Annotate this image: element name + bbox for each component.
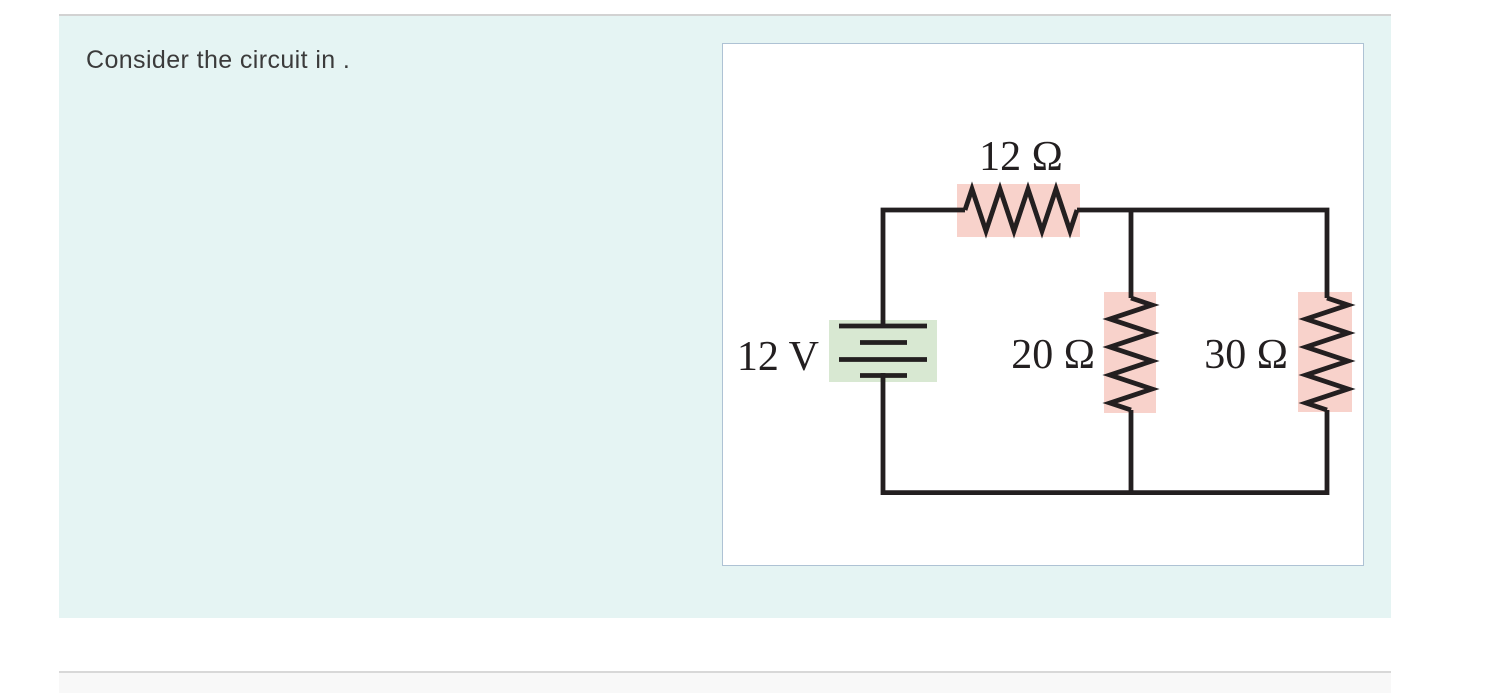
resistor R2 (20 ohm) zigzag [1110, 298, 1152, 410]
battery B1 plate long top [839, 324, 927, 329]
bottom divider strip [59, 671, 1391, 693]
svg-text:30 Ω: 30 Ω [1204, 332, 1288, 378]
wire: R3 bottom lead to bottom-right corner, bottom wire, up to battery bottom [883, 373, 1327, 493]
battery B1 plate short upper [860, 340, 907, 345]
wire: middle branch top (node to R2 top lead) [1129, 210, 1134, 298]
wire: R1 right lead to top-right corner to R3 top lead [1077, 210, 1327, 298]
resistor R3 (30 ohm) zigzag [1306, 298, 1348, 410]
resistor R1 (12 ohm) zigzag [965, 189, 1077, 231]
prompt text [86, 46, 350, 75]
resistor R2 highlight [1104, 292, 1156, 413]
resistor R3 highlight [1298, 292, 1352, 412]
wire: battery top to top-left corner to R1 left lead [883, 210, 965, 328]
svg-text:12 V: 12 V [737, 334, 819, 380]
battery B1 highlight [829, 320, 937, 382]
svg-text:12 Ω: 12 Ω [979, 134, 1063, 180]
resistor R1 highlight [957, 184, 1080, 237]
battery B1 plate long lower [839, 357, 927, 362]
svg-text:20 Ω: 20 Ω [1011, 332, 1095, 378]
question panel [59, 14, 1391, 618]
figure box [722, 43, 1364, 566]
battery B1 plate short bottom [860, 373, 907, 378]
wire: R2 bottom lead to bottom node [1129, 410, 1134, 493]
